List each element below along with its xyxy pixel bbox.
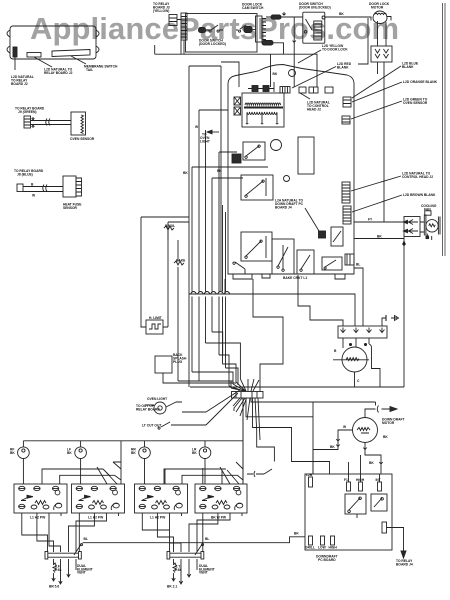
wire marker bottom (262, 41, 273, 46)
svg-text:LOW: LOW (318, 546, 327, 550)
small hole top right (289, 70, 296, 77)
door lock motor (373, 11, 387, 24)
back splash plug (155, 356, 172, 373)
svg-text:TO RELAYBOARD J3(YELLOW): TO RELAYBOARD J3(YELLOW) (153, 2, 170, 13)
cooling fan connector plug (404, 217, 420, 237)
element resistors below bar 2 (172, 559, 177, 581)
door switch (door locked) inside (199, 28, 206, 33)
svg-text:OVEN LIGHT: OVEN LIGHT (147, 397, 167, 401)
long bus to downdraft (83, 537, 305, 543)
leader wires (15, 56, 86, 70)
membrane switch control head (10, 26, 96, 59)
bake resistor (174, 240, 233, 381)
svg-text:BK: BK (273, 72, 278, 76)
surface element bar 2 (167, 552, 170, 560)
diamond (284, 176, 290, 182)
wires board bottom to terminal strip (189, 268, 399, 391)
outer left box (189, 62, 239, 387)
board top pins (309, 477, 313, 487)
connector blocks top (280, 87, 290, 94)
svg-text:LT CUT OUT: LT CUT OUT (142, 424, 161, 428)
edge connectors right (343, 97, 351, 107)
svg-text:BL: BL (205, 537, 209, 541)
infinite switch SW4 (195, 484, 247, 516)
infinite switch SW3 (135, 484, 188, 516)
surface indicator light 3 (139, 447, 151, 459)
svg-text:BL: BL (84, 537, 88, 541)
wires into downdraft top (349, 455, 361, 474)
to oven light arrow (212, 131, 219, 133)
svg-text:BL: BL (356, 263, 360, 267)
vertical connector strip natural (342, 182, 350, 203)
door switch (door unlocked) (303, 12, 325, 43)
membrane tail (52, 50, 90, 57)
lt cut out switch (158, 412, 206, 429)
transformer (242, 93, 284, 127)
relay K2 (241, 175, 273, 200)
wire bk into board (199, 110, 228, 292)
svg-text:DOOR SWITCH(DOOR LOCKED): DOOR SWITCH(DOOR LOCKED) (199, 39, 226, 47)
leader L2D yellow (298, 50, 321, 63)
svg-text:TO RELAYBOARD J4: TO RELAYBOARD J4 (396, 559, 413, 567)
svg-text:L1 H2 PW: L1 H2 PW (30, 516, 46, 520)
relay cluster bottom (241, 232, 272, 261)
filter components top (252, 86, 258, 92)
infinite switch SW2 (72, 484, 125, 516)
svg-text:L2D BROWN BLANK: L2D BROWN BLANK (403, 193, 436, 197)
infinite switch SW1 (14, 484, 67, 516)
svg-text:L1 H2 PW: L1 H2 PW (150, 516, 166, 520)
wire fan to bar (206, 390, 242, 425)
svg-text:RRBK: RRBK (131, 448, 136, 456)
connector to relay board J8 / heat fuse sensor (17, 184, 23, 192)
right border line (443, 3, 446, 256)
terminal strip (338, 326, 387, 338)
connector to relay board J9 green (24, 116, 31, 128)
staircase wires to switch row 1 (42, 441, 121, 484)
svg-text:BAKE CRKT L1: BAKE CRKT L1 (283, 276, 307, 280)
staircase wires to switch row 2 (164, 398, 243, 484)
svg-text:H. LIMIT: H. LIMIT (149, 316, 162, 320)
svg-text:BK: BK (369, 461, 374, 465)
h limit (146, 320, 163, 334)
broil resistor (164, 226, 174, 240)
connector stub left (13, 47, 17, 57)
cooling fan motor (424, 215, 440, 236)
svg-text:L2D NATURAL TORELAY BOARD J2: L2D NATURAL TORELAY BOARD J2 (44, 68, 73, 76)
svg-text:DOOR LOCKCAM SWITCH: DOOR LOCKCAM SWITCH (242, 3, 264, 11)
leader L2D natural head J2 (300, 93, 310, 99)
svg-text:BK: BK (217, 169, 222, 173)
heat line loop (141, 217, 189, 324)
relay K1 (243, 142, 265, 160)
wires board to fan (354, 222, 432, 387)
wire yellow to door lock (358, 18, 368, 64)
downdraft relay 1 (345, 494, 366, 514)
svg-text:BK: BK (294, 532, 299, 536)
svg-text:C.T.2.6k: C.T.2.6k (175, 565, 182, 573)
vertical connector strip brown (343, 206, 351, 224)
L2B edge connector (345, 254, 354, 265)
svg-text:BK: BK (330, 445, 335, 449)
svg-text:BK: BK (183, 171, 188, 175)
door lock assembly box (186, 14, 258, 53)
leader L2D natural (351, 176, 401, 191)
oven control board outline (228, 65, 354, 275)
leader L2D brown (352, 195, 402, 212)
wire top to door switch (266, 12, 303, 17)
door lock solenoid box (371, 46, 392, 62)
motor bottom wire (363, 443, 382, 475)
board bottom pins (309, 536, 313, 545)
leader L2D blue (352, 66, 401, 98)
svg-text:GRILL: GRILL (305, 546, 315, 550)
wire door switch to motor (293, 17, 371, 87)
vertical wire bundle left of board (206, 130, 244, 292)
wires out of bar bottom (243, 398, 376, 484)
svg-text:L1 H2 PW: L1 H2 PW (88, 516, 104, 520)
connector J4 (319, 231, 326, 238)
relay coil box (232, 154, 241, 163)
leader L2A natural J4 (305, 208, 319, 231)
convection fan motor (342, 347, 367, 372)
svg-text:DOWNDRAFTPC BOARD: DOWNDRAFTPC BOARD (316, 555, 338, 563)
wires from SW1/SW2 to element bar 1 (22, 516, 107, 552)
surface indicator light 4 (199, 447, 211, 459)
connector J2 (27, 53, 41, 58)
surface indicator light 2 (75, 447, 87, 459)
converging wires into bar (229, 379, 259, 391)
svg-text:BK W PW: BK W PW (211, 516, 227, 520)
downdraft pc board (305, 474, 392, 550)
staircase into fan (192, 332, 240, 388)
board feet (233, 274, 345, 279)
motor left wire (313, 430, 353, 474)
svg-text:BAKE: BAKE (176, 259, 186, 263)
svg-text:OVEN SENSOR: OVEN SENSOR (70, 137, 95, 141)
svg-text:L2D NATURAL TOCONTROL HEAD J2: L2D NATURAL TOCONTROL HEAD J2 (402, 172, 433, 180)
leader L2D green (351, 101, 402, 119)
svg-text:BROIL: BROIL (165, 224, 175, 228)
tab ears (7, 30, 99, 53)
svg-text:BR 5.6: BR 5.6 (49, 585, 59, 589)
wire marker BK top (271, 15, 281, 19)
wire bottom bus (190, 386, 404, 388)
fuse pair left (234, 97, 241, 105)
lt cut out bar (232, 392, 264, 399)
bl takeoff to long bus (74, 544, 83, 556)
motor plug arrow top (365, 406, 390, 418)
svg-text:BK 2.1: BK 2.1 (167, 585, 177, 589)
surface element bar 1 (45, 552, 48, 560)
svg-text:HIGH: HIGH (356, 478, 365, 482)
plug to switch 4 (247, 469, 272, 477)
wire bk relay feed (192, 152, 268, 292)
oven sensor (71, 112, 86, 135)
svg-text:BK: BK (383, 435, 388, 439)
downdraft motor (353, 418, 378, 443)
svg-text:L2B: L2B (306, 473, 313, 477)
leader L2D red (292, 67, 336, 89)
svg-text:F1: F1 (344, 478, 348, 482)
door latch connector strip (181, 13, 187, 40)
cam switch inside (236, 25, 246, 32)
svg-text:BK: BK (377, 235, 382, 239)
right edge connector + to relay board J4 (382, 522, 387, 533)
downdraft relay 2 (371, 494, 387, 511)
wires from SW3/SW4 to element bar 2 (142, 516, 230, 552)
svg-text:HIGH: HIGH (329, 546, 338, 550)
svg-text:INT: INT (376, 478, 381, 482)
connector to relay board J3 yellow (169, 15, 177, 26)
oven light (154, 402, 166, 414)
surface indicator light 1 (18, 447, 30, 459)
assembly connector pins right (256, 16, 263, 42)
leader L2D orange (352, 82, 402, 102)
hump crossings on y294 bus (191, 292, 231, 295)
indicator bus (23, 440, 243, 442)
element resistors below bar 1 (52, 559, 57, 581)
svg-text:L2D ORANGE BLANK: L2D ORANGE BLANK (403, 80, 438, 84)
svg-text:BK: BK (339, 12, 344, 16)
svg-text:L2D GREEN TOOVEN SENSOR: L2D GREEN TOOVEN SENSOR (403, 98, 428, 106)
